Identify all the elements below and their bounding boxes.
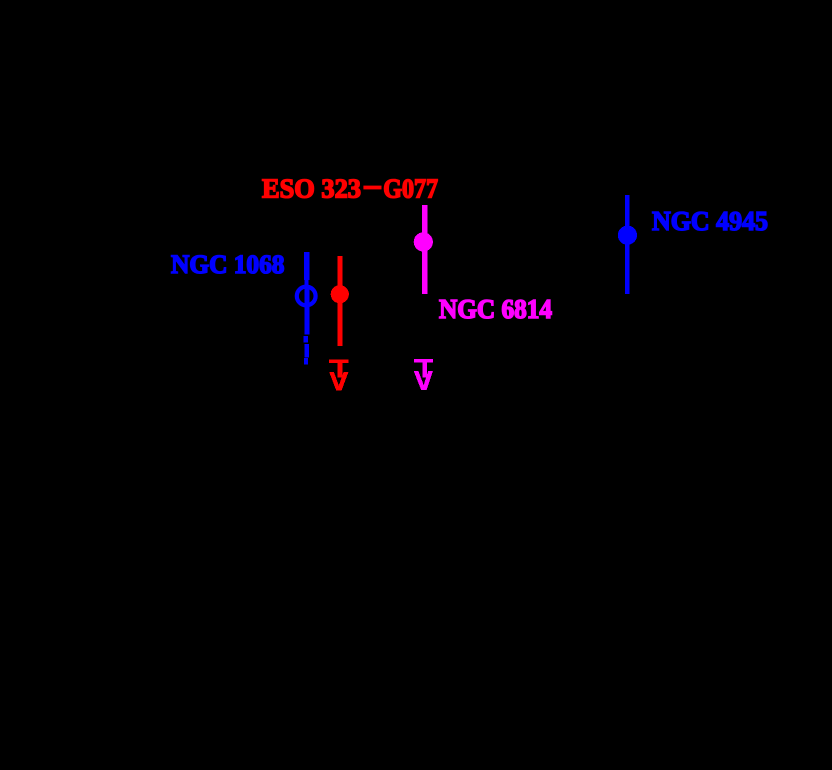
label ESO 323-G077 xyxy=(262,174,438,204)
svg-text:NGC 1068: NGC 1068 xyxy=(171,250,285,279)
svg-text:NGC 4945: NGC 4945 xyxy=(652,206,768,236)
error bar magenta (below ESO label) xyxy=(414,205,433,294)
svg-text:NGC 6814: NGC 6814 xyxy=(439,294,552,324)
error bar NGC 1068 (blue, open circle, dashed lower end) xyxy=(304,252,310,365)
error bar ESO 323-G077 (red, filled circle) xyxy=(331,256,349,346)
label NGC 1068 xyxy=(171,250,285,279)
label NGC 4945 xyxy=(652,206,768,236)
upper limit arrow red xyxy=(329,359,348,390)
svg-text:ESO 323: ESO 323 xyxy=(262,174,361,204)
upper limit arrow magenta (NGC 6814) xyxy=(414,359,433,390)
svg-text:G077: G077 xyxy=(383,174,438,204)
open circle NGC 1068 xyxy=(297,287,316,306)
label NGC 6814 xyxy=(439,294,552,324)
error bar NGC 4945 (blue, filled circle) xyxy=(618,195,637,294)
